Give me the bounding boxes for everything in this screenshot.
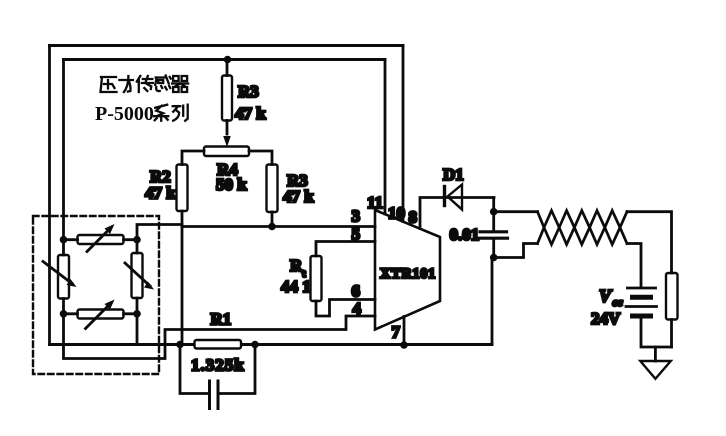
wire bridge right arm [136,240,139,314]
wire outer loop top rail [50,44,404,47]
battery Vcc plate long 1 [628,287,656,290]
char 传 [137,76,153,92]
wire bridge bottom-left to pin 4 run [64,314,376,359]
wire pin 7 down to bottom rail [403,317,406,346]
bridge bottom strain-gauge resistor body [78,310,124,319]
char 器 [172,76,188,92]
svg-text:3: 3 [352,207,361,226]
svg-text:D1: D1 [443,165,464,184]
capacitor 0.01 plates [478,232,508,238]
svg-text:V: V [599,286,613,306]
bridge right strain-gauge resistor body [132,253,143,298]
wire pin 5 to Rt top [316,242,375,257]
wire battery bottom to ground junction [641,319,672,348]
char 列 [173,105,188,121]
battery Vcc plate long 2 [626,305,657,308]
wire outer loop left vertical [48,46,51,345]
resistor R2 vertical body [177,165,188,212]
wire cap bottom node step to twisted pair bottom [494,244,538,258]
wire right rail up to capacitor bottom [491,258,494,345]
char 压 [101,77,117,92]
wire load resistor bottom to ground junction [670,320,673,348]
wire inner loop right vertical to pin 11 [384,60,387,215]
wire bridge bottom-right down to bottom rail [136,314,139,343]
resistor R3 top vertical body [222,76,232,121]
diode D1 cathode bar [443,187,446,206]
node bridge top-left dot [60,236,68,244]
capacitor below R1 left drop [180,345,210,394]
wire twisted pair top to load resistor [627,212,672,273]
capacitor below R1 plates [210,381,219,409]
svg-text:R1: R1 [211,310,232,329]
wire R2 bottom vertical down to R1 node [181,211,184,345]
wire bridge top-right to pin 3 [137,225,375,240]
arrow through bridge right resistor [125,263,150,286]
wire R3 top lead [226,60,229,76]
node junction dot cap top [490,208,498,216]
ground triangle [640,361,671,379]
wire inner loop left vertical to bridge [62,60,65,240]
dashed sensor outline box [33,216,159,374]
diode D1 triangle [448,185,463,210]
wire inner loop top rail [64,58,386,61]
wire bottom rail (pin 7 net) [50,343,493,346]
svg-text:11: 11 [367,193,383,212]
potentiometer R4 horizontal body [204,147,249,157]
svg-text:P-5000: P-5000 [95,103,154,125]
wire R3 right bottom lead [271,212,274,227]
char 力 [119,76,132,92]
svg-text:5: 5 [352,225,361,244]
svg-text:R3: R3 [238,82,259,101]
wire pin 8 up and to diode [420,198,494,229]
wire diode to cap top node [492,198,495,212]
bridge left strain-gauge resistor body [58,255,69,299]
svg-text:XTR101: XTR101 [380,266,436,282]
svg-text:50 k: 50 k [216,175,247,194]
svg-text:6: 6 [352,282,361,301]
wire twisted pair bottom to battery [627,244,641,287]
resistor Rt body [311,256,322,301]
wire R3 bottom lead with wiper arrow onto R4 [226,121,229,135]
node junction dot pin3 net at R3 bottom [268,223,276,231]
svg-text:47 k: 47 k [283,187,314,206]
node bridge top-right dot [133,236,141,244]
arrow through bridge top resistor [87,228,111,252]
node junction dot R1 left [176,341,184,349]
battery Vcc plate short 2 [633,314,651,319]
label sensor Chinese text 压力传感器 [101,76,189,93]
wire R4 left lead down to R2 [182,151,204,165]
svg-text:24V: 24V [591,309,621,328]
wire Rt bottom to pin 6 [316,300,375,317]
node bridge bottom-left dot [60,310,68,318]
resistor R1 body on bottom rail [195,340,242,349]
node junction dot pin 7 on bottom rail [400,341,408,349]
svg-text:8: 8 [409,208,418,227]
node junction dot R1 right [251,341,259,349]
wire cap top node to twisted pair top [494,210,538,213]
node junction dot cap bottom [490,254,498,262]
op-amp U1 XTR101 trapezoid [375,210,440,330]
char 系 [154,105,168,121]
wire bridge bottom leads [64,312,138,315]
arrow through bridge left resistor [43,262,72,284]
wire R4 right lead down to R3 [249,151,272,165]
svg-text:4: 4 [353,299,362,318]
wire cap top node down to plate [492,212,495,231]
resistor R3 right vertical body [267,165,278,213]
svg-text:44 1: 44 1 [281,277,311,296]
svg-text:cc: cc [613,297,623,309]
node junction dot on inner rail at R3 top [224,56,232,64]
svg-text:7: 7 [392,323,401,342]
wire cap bottom plate to bottom node [492,240,495,258]
twisted pair line 2 [538,211,628,245]
svg-text:47 k: 47 k [145,184,176,203]
svg-text:47 k: 47 k [235,104,266,123]
wire outer loop right vertical to pin 10 [402,46,405,222]
wire bridge left arm [62,240,65,314]
battery Vcc plate short 1 [633,295,651,300]
twisted pair line 1 [538,211,628,245]
load resistor body right [666,273,678,320]
svg-text:10: 10 [388,204,405,223]
svg-text:0.01: 0.01 [450,225,480,244]
bridge top strain-gauge resistor body [78,235,124,244]
arrow through bridge bottom resistor [86,303,112,329]
wire bridge top leads [64,238,138,241]
node bridge bottom-right dot [133,310,141,318]
svg-text:1.325k: 1.325k [191,356,245,375]
ground stub [654,347,657,361]
arrowhead of R3 wiper pointing at R4 [223,136,231,147]
char 感 [155,76,171,92]
capacitor below R1 right drop [218,345,255,394]
